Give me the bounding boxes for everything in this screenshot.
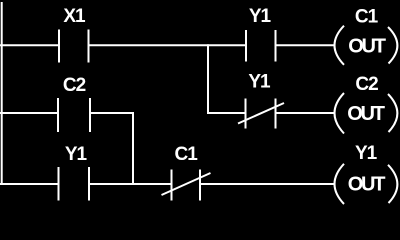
- svg-text:OUT: OUT: [348, 36, 386, 58]
- svg-text:Y1: Y1: [249, 6, 272, 27]
- svg-text:X1: X1: [63, 6, 86, 27]
- svg-text:OUT: OUT: [348, 174, 386, 196]
- svg-text:Y1: Y1: [248, 72, 271, 93]
- svg-text:C1: C1: [175, 144, 199, 165]
- svg-text:C1: C1: [355, 6, 379, 27]
- svg-text:Y1: Y1: [355, 143, 378, 164]
- svg-text:OUT: OUT: [347, 103, 385, 125]
- svg-text:C2: C2: [63, 75, 86, 96]
- svg-text:Y1: Y1: [65, 144, 88, 165]
- svg-text:C2: C2: [355, 74, 378, 95]
